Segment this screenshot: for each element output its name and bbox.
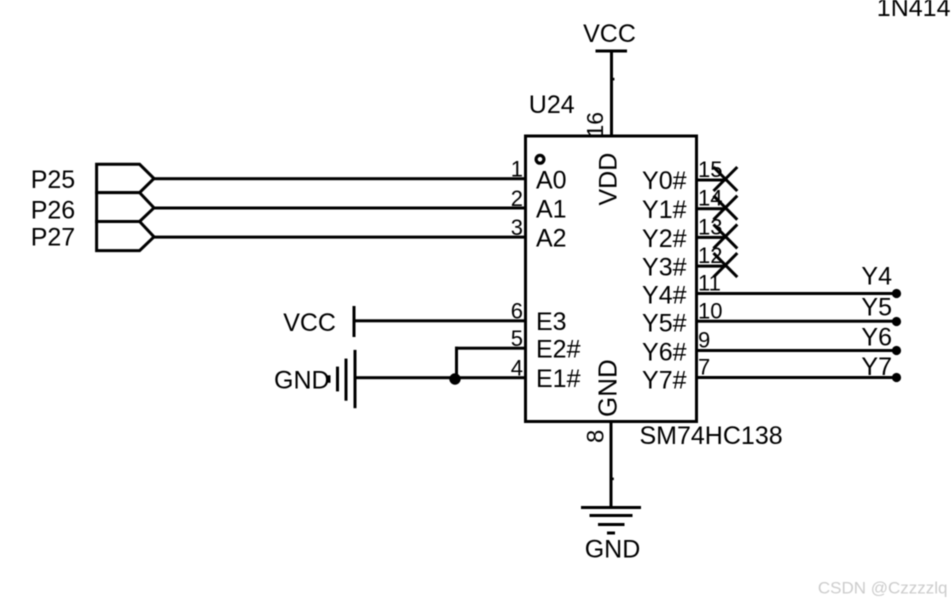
wire pin16 vertical — [610, 51, 613, 136]
svg-text:CSDN @Czzzzlq: CSDN @Czzzzlq — [818, 579, 948, 598]
svg-text:GND: GND — [274, 367, 330, 395]
svg-text:A1: A1 — [536, 196, 567, 224]
wire pin 15 stub — [697, 179, 726, 182]
terminal dot Y4 — [892, 289, 901, 298]
svg-text:15: 15 — [698, 157, 722, 182]
terminal dot Y6 — [892, 346, 901, 355]
ground symbol left bar 1 (smallest) — [328, 375, 331, 383]
wire pin 13 stub — [697, 236, 726, 239]
ground symbol left bar 2 — [336, 367, 339, 392]
svg-text:GND: GND — [593, 359, 623, 417]
wire pin 5 vertical drop — [455, 347, 458, 379]
svg-text:13: 13 — [698, 214, 722, 239]
svg-text:14: 14 — [698, 186, 722, 211]
svg-text:E2#: E2# — [536, 336, 581, 364]
svg-text:Y5#: Y5# — [642, 310, 687, 338]
connector flag P27 — [97, 222, 154, 251]
svg-text:A2: A2 — [536, 225, 567, 253]
ground symbol left bar 4 (largest) — [354, 350, 357, 408]
svg-text:Y4: Y4 — [861, 263, 892, 291]
wire pin 11 to Y4 — [697, 292, 897, 295]
wire pin 5 horizontal — [455, 347, 526, 350]
power VCC top bar symbol — [596, 50, 628, 53]
ground symbol left bar 3 — [345, 359, 348, 401]
wire pin 14 stub — [697, 207, 726, 210]
svg-text:A0: A0 — [536, 166, 567, 194]
junction tick on GND wire — [612, 478, 614, 481]
wire pin 8 vertical — [610, 421, 613, 508]
svg-text:Y0#: Y0# — [642, 167, 687, 195]
wire pin 10 to Y5 — [697, 320, 897, 323]
ground GND bottom bar 3 — [598, 523, 625, 526]
wire pin 1 — [152, 177, 526, 180]
svg-text:SM74HC138: SM74HC138 — [640, 422, 783, 450]
svg-text:P27: P27 — [31, 224, 75, 252]
wire pin 3 — [152, 236, 526, 239]
wire pin 4 from ground — [354, 376, 526, 379]
wire pin 9 to Y6 — [697, 349, 897, 352]
ground GND bottom bar 2 — [590, 514, 633, 517]
svg-text:Y6#: Y6# — [642, 339, 687, 367]
svg-text:GND: GND — [585, 536, 641, 564]
no-connect X pin 14 — [714, 196, 738, 220]
no-connect X pin 13 — [714, 224, 738, 248]
no-connect X pin 12 — [714, 253, 738, 277]
wire pin 6 — [354, 319, 526, 322]
svg-text:2: 2 — [511, 186, 523, 211]
svg-text:Y7#: Y7# — [642, 367, 687, 395]
svg-text:9: 9 — [698, 328, 710, 353]
svg-text:12: 12 — [698, 243, 722, 268]
svg-text:P26: P26 — [31, 197, 75, 225]
svg-text:Y5: Y5 — [861, 294, 892, 322]
svg-text:VDD: VDD — [595, 153, 623, 206]
connector flag P26 — [97, 193, 154, 222]
IC U24 body — [526, 136, 697, 422]
svg-text:VCC: VCC — [283, 309, 336, 337]
junction tick on VCC wire — [613, 78, 615, 81]
terminal dot Y5 — [892, 317, 901, 326]
junction dot E1#/E2# — [449, 373, 460, 384]
svg-text:16: 16 — [582, 112, 608, 138]
connector flag P25 — [97, 164, 154, 192]
svg-text:U24: U24 — [529, 91, 575, 119]
svg-text:1: 1 — [511, 157, 523, 182]
terminal dot Y7 — [892, 373, 901, 382]
svg-text:Y1#: Y1# — [642, 196, 687, 224]
svg-text:E1#: E1# — [536, 365, 581, 393]
svg-text:P25: P25 — [31, 166, 75, 194]
wire pin 12 stub — [697, 265, 726, 268]
ground GND bottom bar 1 (widest) — [581, 506, 641, 509]
svg-text:E3: E3 — [536, 308, 567, 336]
power VCC left bar symbol — [353, 306, 356, 337]
svg-text:VCC: VCC — [583, 20, 636, 48]
svg-text:1N4148: 1N4148 — [877, 0, 951, 22]
svg-text:3: 3 — [511, 215, 523, 240]
svg-text:Y7: Y7 — [861, 353, 892, 381]
wire pin 7 to Y7 — [697, 376, 897, 379]
no-connect X pin 15 — [714, 167, 738, 191]
pin 1 indicator circle — [536, 155, 544, 163]
wire pin 2 — [152, 207, 526, 210]
svg-text:Y4#: Y4# — [642, 282, 687, 310]
svg-text:Y2#: Y2# — [642, 225, 687, 253]
svg-text:7: 7 — [698, 355, 710, 380]
svg-text:8: 8 — [583, 430, 610, 443]
svg-text:Y6: Y6 — [861, 324, 892, 352]
svg-text:Y3#: Y3# — [642, 254, 687, 282]
ground GND bottom bar 4 (smallest) — [607, 532, 615, 535]
